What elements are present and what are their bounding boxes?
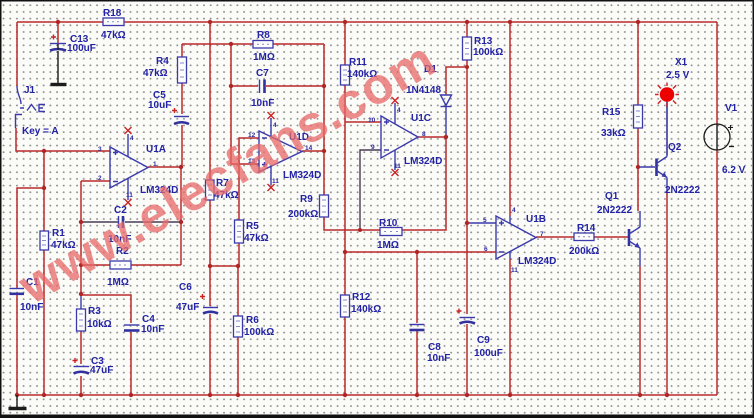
wire: U1B output to R14 [536, 236, 574, 238]
svg-text:U1B: U1B [526, 214, 546, 225]
svg-text:V1: V1 [725, 103, 738, 114]
wire: V1 positive from top rail corner [716, 22, 718, 124]
svg-text:100kΩ: 100kΩ [244, 327, 274, 338]
resistor R4 [178, 57, 187, 83]
resistor R6 [234, 316, 243, 337]
svg-text:8: 8 [422, 131, 426, 138]
wire: R6 top [237, 266, 239, 316]
svg-text:C7: C7 [256, 68, 269, 79]
node: U1D output [322, 149, 326, 153]
wire: C13 top stub [57, 22, 59, 43]
ground (C13) [51, 51, 67, 85]
transistor Q2 [657, 101, 668, 180]
capacitor C1 [10, 289, 25, 294]
svg-text:10nF: 10nF [427, 353, 450, 364]
svg-text:R3: R3 [88, 306, 101, 317]
node: rail-R12 [343, 393, 347, 397]
wire: Q2 emitter to ground rail [666, 179, 668, 193]
op-amp U1C [381, 103, 418, 170]
node: rail-C1 [15, 393, 19, 397]
wire: C6 bottom to rail [209, 314, 211, 395]
node: rail-Q1 emitter [638, 393, 642, 397]
node: rail-U1B pin11 [508, 393, 512, 397]
node: C2 left tap [79, 220, 83, 224]
node: C7 right [322, 84, 326, 88]
svg-text:11: 11 [511, 267, 518, 274]
svg-text:9: 9 [371, 144, 375, 151]
wire: R6 bottom to rail [237, 337, 239, 395]
wire: U1D feedback vertical x324 [323, 44, 325, 195]
wire: U1B pin11 to ground rail [509, 259, 511, 395]
svg-text:Key = A: Key = A [22, 126, 59, 137]
node: R3 tap [79, 292, 83, 296]
node: pin9 junction [358, 228, 362, 232]
wire: R1 bottom to ground rail [43, 250, 45, 395]
resistor R5 [235, 220, 244, 243]
node: rail-R1 [42, 393, 46, 397]
svg-text:4: 4 [130, 135, 134, 142]
svg-text:R6: R6 [246, 315, 259, 326]
resistor R3 [77, 309, 86, 331]
node: C2 right tap [179, 220, 183, 224]
wire: R15 from top rail [637, 22, 639, 105]
resistor R11 [341, 65, 350, 85]
svg-text:R18: R18 [103, 8, 122, 19]
wire: C1 branch [17, 188, 44, 288]
wire: lamp X1 to Q2 collector [666, 102, 668, 155]
capacitor C8 [410, 325, 425, 331]
svg-text:Q2: Q2 [668, 142, 682, 153]
wire: C9 bottom to rail [466, 324, 468, 395]
power X pin11 U1C [392, 169, 399, 176]
svg-text:33kΩ: 33kΩ [601, 128, 626, 139]
node: feedback y44 [229, 42, 233, 46]
node: rail-C6 [208, 393, 212, 397]
node: R13-D1 [465, 65, 469, 69]
wire: R5 bottom to node y266 [238, 243, 240, 266]
svg-text:47uF: 47uF [176, 302, 199, 313]
svg-text:100uF: 100uF [67, 43, 96, 54]
wire: R3 top stub [80, 294, 82, 309]
op-amp U1A [110, 134, 148, 200]
svg-text:47uF: 47uF [90, 365, 113, 376]
wire: R13 bottom to U1B pin5 node [466, 60, 468, 223]
svg-text:2N2222: 2N2222 [665, 185, 700, 196]
wire: R9 bottom to R10 to U1C output node [324, 137, 446, 230]
wire: U1D output [302, 150, 324, 152]
transistor Q1 [629, 227, 640, 248]
wire: pin5 node to C9 [466, 223, 468, 314]
wire: R7 from top rail [209, 22, 211, 180]
wire: C8 top [416, 252, 418, 323]
wire: input net down to R1 [43, 151, 45, 231]
wire: C4 bottom to rail [130, 332, 132, 395]
node: R2 left tap [79, 263, 83, 267]
wire: U1A output to feedback corner [148, 167, 181, 265]
wire: C1 bottom to ground rail [16, 295, 18, 395]
wire: node y295 to C4 [81, 295, 131, 323]
power X pin4 U1A [125, 127, 132, 134]
capacitor C2 (horizontal) [119, 216, 124, 228]
node: rail-U1B pin4 [508, 20, 512, 24]
wire: V1 negative to ground rail corner [716, 150, 718, 395]
svg-text:5: 5 [483, 217, 487, 224]
svg-text:140kΩ: 140kΩ [351, 304, 381, 315]
wire: C2 left [81, 221, 118, 223]
svg-text:2: 2 [98, 175, 102, 182]
op-amp U1B [496, 216, 536, 259]
capacitor C4 [124, 325, 140, 331]
svg-text:7: 7 [540, 231, 544, 238]
svg-text:R8: R8 [257, 30, 270, 41]
resistor R14 [574, 233, 594, 241]
wire: U1C output [418, 136, 446, 138]
wire: inverting net vertical x81 [80, 181, 82, 294]
node: U1C output D1 [444, 135, 448, 139]
node: rail-C4 [129, 393, 133, 397]
svg-text:100uF: 100uF [474, 348, 503, 359]
svg-text:11: 11 [394, 163, 401, 170]
wire: J1 bottom to U1A pin3 [16, 128, 110, 151]
node: Q2 base Q1 collector [636, 165, 640, 169]
wire: R3 bottom to C3 [80, 331, 82, 364]
wire: comparator input net y252 [345, 251, 496, 253]
capacitor C5 (polarized) [172, 108, 189, 124]
svg-text:R15: R15 [602, 107, 621, 118]
resistor R18 [103, 18, 124, 26]
wire: C7 right [266, 85, 324, 87]
wire: U1B pin5 horizontal [467, 222, 496, 224]
node: rail-R15 [636, 20, 640, 24]
resistor R12 [341, 295, 350, 317]
svg-text:1MΩ: 1MΩ [377, 240, 399, 251]
wire: C7 left [231, 85, 258, 87]
wire: D1 cathode stub [445, 107, 447, 137]
svg-text:1MΩ: 1MΩ [107, 277, 129, 288]
wire: U1C pin9 down to R9-R10 net [360, 150, 381, 230]
svg-text:LM324D: LM324D [518, 256, 556, 267]
svg-text:X1: X1 [675, 57, 688, 68]
svg-text:10uF: 10uF [148, 100, 171, 111]
node: C8 tap [415, 250, 419, 254]
switch J1 [16, 86, 46, 128]
wire: node y44 R4-top to R8 to corner [182, 43, 324, 45]
node: rail-C9 [465, 393, 469, 397]
source V1 [704, 124, 734, 150]
wire: C8 bottom to rail [416, 331, 418, 395]
wire: R2 left [81, 264, 110, 266]
power X pin4 U1D [268, 112, 275, 119]
wire: node y266 [210, 265, 238, 267]
resistor R8 [253, 41, 273, 49]
power X pin11 U1D [268, 184, 275, 191]
resistor R1 [40, 231, 49, 250]
diode D1 1N4148 [441, 95, 452, 107]
wire: R2 right to feedback vertical [131, 264, 181, 266]
svg-text:R4: R4 [156, 56, 169, 67]
wire: R14 to Q1 base [594, 236, 628, 238]
wire: D1 anode jog to R13 [446, 67, 467, 95]
svg-text:2N2222: 2N2222 [597, 205, 632, 216]
svg-text:200kΩ: 200kΩ [288, 209, 318, 220]
svg-text:47kΩ: 47kΩ [143, 68, 168, 79]
node: rail-C13 [56, 20, 60, 24]
svg-text:2.5 V: 2.5 V [666, 70, 690, 81]
svg-text:C9: C9 [477, 335, 490, 346]
wire: C2 right to feedback vertical [125, 221, 181, 223]
node: U1A output [179, 165, 183, 169]
power X pin4 U1C [392, 97, 399, 104]
svg-text:1MΩ: 1MΩ [253, 52, 275, 63]
svg-text:LM324D: LM324D [404, 156, 442, 167]
svg-text:4: 4 [512, 207, 516, 214]
svg-text:10kΩ: 10kΩ [87, 319, 112, 330]
svg-text:U1A: U1A [146, 144, 166, 155]
svg-text:C8: C8 [428, 342, 441, 353]
wire: C3 bottom to rail [80, 376, 82, 395]
wire: feedback net to U1D pin13 [231, 44, 259, 164]
svg-text:Q1: Q1 [605, 191, 619, 202]
svg-text:C6: C6 [179, 282, 192, 293]
svg-text:R10: R10 [379, 218, 398, 229]
wire: R11 from top rail [344, 22, 346, 65]
node: rail-C8 [415, 393, 419, 397]
wire: Q2 base node down to Q1 collector [637, 167, 639, 211]
wire: J1 top stub from rail [16, 22, 18, 86]
node: input net R1 tap [42, 149, 46, 153]
svg-text:R12: R12 [352, 292, 371, 303]
wire: C6 top [209, 266, 211, 306]
svg-text:11: 11 [272, 178, 279, 185]
svg-text:47kΩ: 47kΩ [101, 30, 126, 41]
svg-text:R9: R9 [300, 194, 313, 205]
wire: R15 bottom to Q2 base node [637, 128, 639, 167]
resistor R13 [463, 37, 472, 60]
svg-text:R13: R13 [474, 36, 493, 47]
wire: Q1 collector stub [639, 211, 641, 227]
wire: U1B pin4 supply from top rail [509, 22, 511, 216]
capacitor C9 (polarized) [457, 309, 476, 324]
wire: R13 top stub [466, 22, 468, 37]
node: rail-R11 [343, 20, 347, 24]
wire: bottom ground rail [17, 394, 717, 396]
wire: top supply rail [17, 21, 717, 23]
node: R7-C6-R5 bias [208, 264, 212, 268]
svg-text:200kΩ: 200kΩ [569, 246, 599, 257]
op-amp U1D [259, 118, 302, 185]
wire: Q2 base horizontal [638, 166, 655, 168]
node: C7 left [229, 84, 233, 88]
svg-text:47kΩ: 47kΩ [244, 233, 269, 244]
svg-text:6: 6 [484, 246, 488, 253]
node: R5-R6 [236, 264, 240, 268]
svg-text:U1C: U1C [411, 113, 431, 124]
svg-text:1: 1 [153, 161, 157, 168]
node: U1B pin5 ref [465, 221, 469, 225]
svg-text:J1: J1 [24, 85, 36, 96]
svg-text:R14: R14 [577, 223, 596, 234]
resistor R7 [206, 180, 215, 200]
capacitor C6 (polarized) [200, 294, 218, 314]
resistor R2 [110, 261, 131, 269]
capacitor C7 (horizontal) [260, 80, 265, 94]
wire: U1A pin2 horizontal [81, 180, 110, 182]
wire: R4 bottom to C5 [181, 83, 183, 114]
wire: R11 bottom through to R12 [344, 85, 346, 295]
wire: R4 top stub [181, 44, 183, 57]
wire: U1D pin12 to R5 [239, 138, 259, 220]
wire: U1C pin10 horizontal [345, 121, 381, 123]
svg-text:3: 3 [98, 146, 102, 153]
node: rail-R6 [236, 393, 240, 397]
wire: Q1 emitter to ground rail [639, 248, 641, 266]
svg-text:6.2 V: 6.2 V [722, 165, 746, 176]
power X pin11 U1A [125, 199, 132, 206]
capacitor C3 (polarized) [73, 358, 90, 374]
node: R12 tap [343, 250, 347, 254]
svg-text:4: 4 [397, 107, 401, 114]
node: rail-R13 [465, 20, 469, 24]
svg-text:100kΩ: 100kΩ [473, 47, 503, 58]
node: rail-C3 [79, 393, 83, 397]
resistor R9 [320, 195, 329, 217]
svg-text:10nF: 10nF [251, 98, 274, 109]
svg-text:R5: R5 [246, 221, 259, 232]
wire: C5 bottom to U1A output node [181, 125, 183, 167]
resistor R15 [634, 105, 643, 128]
node: rail-R7 [208, 20, 212, 24]
node: C1 tap [42, 186, 46, 190]
lamp X1 (probe) [655, 83, 679, 107]
svg-text:10nF: 10nF [141, 324, 164, 335]
capacitor C13 (polarized) [50, 35, 66, 51]
node: rail-Q2 emitter [665, 393, 669, 397]
resistor R10 [380, 228, 402, 236]
wire: R12 bottom to rail [344, 317, 346, 395]
wire: R7 bottom to node y266 [209, 200, 211, 266]
svg-text:LM324D: LM324D [283, 170, 321, 181]
ground (bottom left) [9, 395, 27, 409]
